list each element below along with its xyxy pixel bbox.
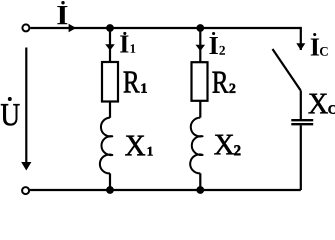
label U (dotted)	[1, 97, 20, 125]
terminal T2 (bottom-left input)	[22, 187, 29, 194]
switch S (open blade)	[273, 49, 301, 90]
label I2 (dotted)	[210, 32, 226, 55]
label R2	[213, 72, 236, 93]
wire: branch 2 upper (node to R2)	[199, 28, 201, 62]
node: junction bottom of branch 2	[196, 186, 204, 194]
label XC	[309, 94, 335, 114]
node: junction top of branch 2	[196, 24, 204, 32]
current arrow I	[69, 24, 77, 32]
label X2	[214, 135, 240, 155]
label Ic (dotted)	[311, 33, 328, 56]
label X1	[125, 136, 152, 156]
wire: X1 to bottom rail	[109, 173, 111, 190]
node: junction top of branch 1	[106, 24, 114, 32]
wire: bottom rail	[30, 189, 301, 191]
wire: right branch drop from top rail	[300, 27, 302, 50]
label I1 (dotted)	[120, 32, 135, 53]
capacitor XC plate top	[291, 119, 313, 121]
wire: top rail	[30, 27, 301, 29]
wire: R2 to X2	[199, 101, 201, 118]
inductor X2 (3 arcs bulging left)	[190, 118, 202, 174]
voltage arrow U (shaft)	[25, 48, 27, 163]
current arrow I1	[105, 44, 115, 50]
inductor X1 (3 arcs bulging left)	[100, 118, 112, 174]
current arrow Ic	[296, 43, 305, 50]
node: junction bottom of branch 1	[106, 186, 114, 194]
resistor R1	[102, 62, 118, 102]
current arrow I2	[196, 45, 206, 51]
wire: R1 to X1	[109, 102, 111, 118]
label I (dotted)	[57, 1, 67, 24]
capacitor XC plate bottom	[291, 123, 313, 125]
terminal T1 (top-left input)	[22, 24, 29, 31]
label R1	[124, 72, 147, 93]
wire: X2 to bottom rail	[199, 173, 201, 190]
wire: branch 1 upper (node to R1)	[109, 28, 111, 62]
voltage arrow U (head)	[21, 162, 31, 171]
resistor R2	[192, 62, 208, 101]
wire: switch to capacitor	[300, 90, 302, 119]
wire: capacitor to bottom rail	[300, 125, 302, 190]
